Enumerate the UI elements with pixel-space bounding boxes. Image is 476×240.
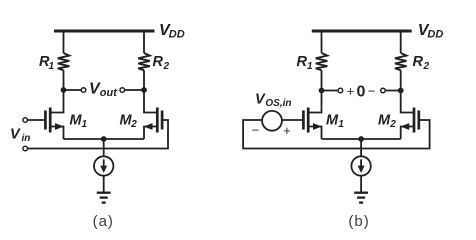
svg-text:1: 1 <box>49 61 55 72</box>
node left drain (b) <box>319 88 325 94</box>
svg-text:in: in <box>22 133 31 144</box>
wire to right drain node (b) <box>385 90 400 92</box>
wire to output left terminal (b) <box>322 90 339 92</box>
wire R2 to drain node (b) <box>400 70 402 90</box>
wire R2 to drain node <box>143 70 145 90</box>
wire Vin top terminal to M1 gate <box>28 119 45 121</box>
terminal output left (b) <box>338 88 343 93</box>
svg-text:OS,in: OS,in <box>265 98 291 109</box>
transistor M2 (b) <box>378 91 419 140</box>
wire common source rail (a) <box>64 138 145 140</box>
resistor R2 (b) <box>395 53 407 70</box>
wire current source to ground (b) <box>360 176 362 192</box>
wire rail to R2 (b) <box>400 31 402 53</box>
wire to right drain node <box>125 89 144 91</box>
node Vout label <box>89 81 118 99</box>
current source I1 (b) <box>351 156 370 175</box>
wire rail to R1 <box>63 31 65 53</box>
wire R1 to drain node <box>63 70 65 90</box>
node VDD label (a) <box>159 22 185 41</box>
ground (a) <box>97 193 111 203</box>
VDD rail (a) <box>54 30 155 33</box>
transistor M2 (a) <box>120 90 163 139</box>
svg-text:−: − <box>252 123 260 138</box>
node output 0 label (b) <box>347 83 375 100</box>
wire R1 to drain node (b) <box>321 70 323 90</box>
wire Vin bottom terminal to M2 gate <box>28 120 169 149</box>
node left drain (a) <box>61 87 67 93</box>
svg-text:V: V <box>255 92 266 108</box>
terminal Vout right (a) <box>120 88 125 93</box>
svg-text:DD: DD <box>169 29 185 41</box>
node right drain (a) <box>141 87 147 93</box>
svg-text:R: R <box>413 54 424 70</box>
svg-text:DD: DD <box>427 29 443 41</box>
wire to Vout left terminal <box>64 89 82 91</box>
ground (b) <box>354 193 368 203</box>
wire tail node to current source <box>103 139 105 156</box>
node Vin label <box>10 127 30 145</box>
svg-text:(a): (a) <box>93 213 114 230</box>
svg-text:2: 2 <box>163 61 170 72</box>
wire source to M1 gate (b) <box>282 119 302 121</box>
VDD rail (b) <box>312 30 412 33</box>
wire tail node to current source (b) <box>360 139 362 156</box>
node tail junction (b) <box>358 136 364 142</box>
wire source left to bottom loop (b) <box>243 120 430 149</box>
svg-text:2: 2 <box>423 61 430 72</box>
wire rail to R1 (b) <box>321 31 323 53</box>
svg-text:R: R <box>297 54 308 70</box>
svg-text:out: out <box>100 87 118 99</box>
svg-text:2: 2 <box>389 119 396 130</box>
svg-text:V: V <box>10 127 21 143</box>
node VDD label (b) <box>418 22 444 41</box>
wire rail to R2 <box>143 31 145 53</box>
terminal Vout left (a) <box>81 88 86 93</box>
transistor M1 (a) <box>45 90 87 139</box>
svg-text:−: − <box>368 84 376 99</box>
voltage source VOS,in (b) <box>252 92 292 138</box>
current source I1 (a) <box>94 156 113 175</box>
svg-text:1: 1 <box>307 61 313 72</box>
resistor R1 (a) <box>58 53 70 70</box>
svg-text:M: M <box>378 112 391 128</box>
resistor R2 (a) <box>138 53 150 70</box>
transistor M1 (b) <box>303 91 344 140</box>
svg-text:+: + <box>347 83 355 98</box>
wire common source rail (b) <box>322 138 401 140</box>
terminal Vin bottom (a) <box>23 146 28 151</box>
svg-text:+: + <box>283 123 291 138</box>
svg-text:1: 1 <box>82 119 88 130</box>
svg-text:M: M <box>326 112 339 128</box>
terminal Vin top (a) <box>23 118 28 123</box>
svg-text:2: 2 <box>130 119 137 130</box>
wire current source to ground <box>103 176 105 192</box>
node right drain (b) <box>398 88 404 94</box>
node tail junction (a) <box>101 136 107 142</box>
terminal output right (b) <box>381 88 386 93</box>
svg-text:R: R <box>153 54 164 70</box>
resistor R1 (b) <box>316 53 328 70</box>
svg-text:0: 0 <box>357 83 366 100</box>
svg-text:(b): (b) <box>348 213 369 230</box>
svg-text:1: 1 <box>338 119 344 130</box>
